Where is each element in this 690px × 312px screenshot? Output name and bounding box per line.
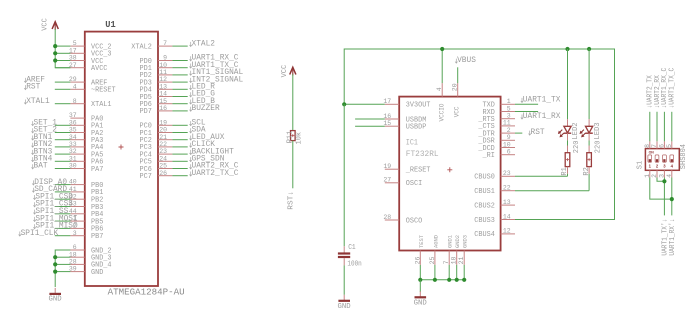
S1 pin 2 (bottom)	[651, 170, 658, 178]
U1 pin 22 PC3 / net CLICK	[140, 140, 216, 152]
svg-text:25: 25	[429, 256, 436, 264]
U1 pin 24 PC5 / net GPS_SDN	[140, 155, 225, 167]
U1 pin 36 PA1 / net SET_1	[32, 119, 104, 131]
svg-text:R11: R11	[287, 131, 295, 144]
svg-text:28: 28	[69, 259, 77, 266]
svg-text:32: 32	[69, 148, 77, 155]
svg-text:UART2_TX_C: UART2_TX_C	[192, 169, 239, 178]
svg-text:27: 27	[383, 177, 391, 184]
U1 pin 33 PA4 / net BTN2	[32, 140, 104, 152]
wire TXD / net UART1_TX	[515, 95, 561, 104]
svg-text:CBUS3: CBUS3	[474, 217, 495, 225]
svg-text:GND: GND	[338, 303, 352, 311]
U1 pin 19 PC0 / net SCL	[140, 119, 206, 131]
svg-text:19: 19	[159, 119, 167, 126]
U1 pin 32 PA5 / net BTN3	[32, 147, 104, 159]
svg-text:SHS804: SHS804	[680, 144, 688, 169]
IC1 pin 4 VCCIO (top)	[436, 49, 445, 122]
svg-text:XTAL2: XTAL2	[131, 43, 152, 51]
S1 pin 6 / net UART1_RX_C	[658, 68, 669, 149]
svg-text:↓UART1_TX_C: ↓UART1_TX_C	[669, 68, 677, 109]
svg-text:24: 24	[159, 155, 167, 162]
U1 pin 11 PD2 / net INT1_SIGNAL	[140, 68, 244, 80]
U1 pin 1 PB5 / net SPI1_MOSI	[33, 214, 103, 226]
wire C1 to ground	[343, 265, 345, 294]
LED LED3	[580, 49, 602, 140]
U1 pin 21 PC2 / net LED_AUX	[140, 133, 225, 145]
svg-text:CBUS4: CBUS4	[474, 231, 495, 239]
wire R2 to IC1	[515, 190, 589, 192]
svg-text:14: 14	[503, 213, 511, 220]
IC1 pin 21 GND3 (bottom)	[458, 235, 469, 280]
svg-text:GND3: GND3	[463, 235, 469, 248]
svg-text:33: 33	[69, 141, 77, 148]
svg-text:25: 25	[159, 163, 167, 170]
U1 pin 40 PB0 / net DISP_A0	[32, 178, 103, 190]
svg-text:13: 13	[503, 199, 511, 206]
U1 pin 14 PD5 / net LED_G	[140, 90, 216, 102]
svg-text:PD7: PD7	[140, 108, 152, 116]
svg-text:20: 20	[452, 83, 459, 91]
IC1 pin 17 3V3OUT	[344, 98, 431, 110]
svg-text:4: 4	[73, 83, 77, 90]
svg-text:TEST: TEST	[419, 234, 425, 248]
svg-text:VCC: VCC	[41, 18, 49, 31]
IC1 pin 19 _RESET	[383, 163, 430, 175]
svg-text:15: 15	[383, 120, 391, 127]
svg-text:CBUS0: CBUS0	[474, 174, 495, 182]
svg-text:6: 6	[73, 244, 77, 251]
IC1 pin 15 USBDP	[355, 120, 427, 132]
IC1 pin 12 CBUS4	[474, 228, 515, 240]
IC1 pin 3 _RTS	[478, 113, 515, 125]
ground symbol (U1)	[49, 288, 63, 304]
svg-text:28: 28	[383, 214, 391, 221]
svg-text:18: 18	[451, 256, 458, 264]
U1 pin 10 PD1 / net UART1_TX_C	[140, 61, 239, 73]
IC1 pin 11 _CTS	[478, 120, 515, 132]
wire S1 pins 2+3 / net UART1_TX'	[657, 178, 670, 256]
svg-text:GND: GND	[414, 300, 428, 308]
svg-text:26: 26	[414, 256, 421, 264]
svg-text:31: 31	[69, 155, 77, 162]
svg-text:LED2: LED2	[572, 122, 580, 139]
IC1 pin 25 AGND (bottom)	[429, 235, 440, 280]
U1 pin 30 PA7 / net BAT	[32, 162, 104, 174]
svg-text:8: 8	[644, 144, 651, 148]
svg-text:1: 1	[507, 98, 511, 105]
svg-text:AVCC: AVCC	[91, 65, 108, 73]
IC1 pin 2 _DTR	[478, 127, 515, 139]
U1 pin 15 PD6 / net LED_B	[140, 97, 216, 109]
S1 pin 4 (bottom)	[666, 170, 673, 178]
U1 pin 20 PC1 / net SDA	[140, 126, 206, 138]
svg-text:12: 12	[159, 76, 167, 83]
wire S1 pins 1+4 / net UART1_RX'	[650, 178, 677, 256]
svg-text:_RESET: _RESET	[405, 167, 431, 175]
svg-text:XTAL2: XTAL2	[192, 39, 216, 48]
svg-text:40: 40	[69, 179, 77, 186]
svg-text:CBUS1: CBUS1	[474, 188, 495, 196]
svg-text:23: 23	[159, 148, 167, 155]
U1 pin 31 PA6 / net BTN4	[32, 155, 104, 167]
svg-text:5: 5	[507, 105, 511, 112]
U1 pin 8 XTAL1 / net XTAL1	[24, 97, 112, 109]
svg-text:39: 39	[69, 266, 77, 273]
svg-text:5: 5	[73, 40, 77, 47]
IC1 pin 10 _DCD	[478, 141, 515, 153]
wire VBUS rail	[342, 47, 614, 220]
svg-text:BUZZER: BUZZER	[192, 104, 220, 113]
svg-text:2: 2	[507, 127, 511, 134]
LED LED2	[558, 49, 580, 140]
switch S1 SHS804 body	[636, 144, 687, 170]
svg-text:1: 1	[644, 174, 651, 178]
svg-text:16: 16	[383, 113, 391, 120]
svg-text:4: 4	[671, 164, 674, 169]
U1 pin 2 PB6 / net SPI1_MISO	[33, 222, 103, 234]
svg-text:4: 4	[666, 174, 673, 178]
U1 pin 38 VCC	[55, 55, 103, 66]
svg-text:100n: 100n	[347, 260, 361, 268]
svg-text:21: 21	[458, 256, 465, 264]
svg-text:23: 23	[503, 170, 511, 177]
svg-text:36: 36	[69, 119, 77, 126]
VCC supply symbol (U1)	[41, 18, 58, 31]
svg-text:2: 2	[651, 174, 658, 178]
svg-text:XTAL1: XTAL1	[26, 97, 50, 106]
svg-text:12: 12	[503, 228, 511, 235]
IC1 pin 26 TEST (bottom)	[414, 234, 425, 280]
svg-text:17: 17	[383, 98, 391, 105]
svg-text:20: 20	[159, 127, 167, 134]
svg-text:IC1: IC1	[406, 139, 418, 148]
svg-text:22: 22	[503, 185, 511, 192]
svg-text:21: 21	[159, 134, 167, 141]
IC1 pin 23 CBUS0	[474, 170, 515, 182]
ground symbol (C1)	[338, 295, 352, 311]
svg-text:BAT: BAT	[34, 162, 48, 171]
capacitor C1 100n	[338, 244, 362, 269]
U1 pin 35 PA2 / net SET_2	[32, 126, 104, 138]
U1 pin 43 PB3 / net SPI1_CSS	[33, 200, 103, 212]
wire _DTR / net RST	[515, 128, 545, 137]
svg-text:5: 5	[666, 144, 673, 148]
svg-text:OSCO: OSCO	[406, 217, 423, 225]
U1 pin 44 PB4 / net SPI1_SS	[33, 207, 103, 219]
svg-text:16: 16	[159, 105, 167, 112]
svg-text:3V3OUT: 3V3OUT	[406, 102, 431, 110]
op-amp U1 ATMEGA1284P-AU body	[85, 20, 185, 297]
S1 pin 5 / net UART1_TX_C	[666, 68, 677, 149]
IC1 pin 16 USBDM	[355, 113, 427, 125]
svg-text:C1: C1	[348, 244, 356, 252]
IC1 pin 9 _DSR	[478, 134, 515, 146]
wire IC1 ground bus	[418, 278, 466, 292]
op-amp IC1 FT232RL body	[399, 97, 500, 251]
U1 pin 7 XTAL2 / net XTAL2	[131, 39, 215, 51]
U1 pin 25 PC6 / net UART2_RX_C	[140, 162, 239, 174]
svg-text:11: 11	[159, 69, 167, 76]
svg-text:35: 35	[69, 127, 77, 134]
svg-text:3: 3	[658, 174, 665, 178]
IC1 pin 7 GND1 (bottom)	[443, 235, 454, 280]
svg-text:GND1: GND1	[448, 235, 454, 248]
svg-text:UART1_RX: UART1_RX	[523, 112, 561, 121]
svg-text:3: 3	[73, 230, 77, 237]
svg-text:3: 3	[507, 113, 511, 120]
svg-text:10k: 10k	[295, 132, 303, 145]
svg-text:GND2: GND2	[455, 235, 461, 248]
svg-text:PB7: PB7	[91, 233, 103, 241]
svg-text:30: 30	[69, 163, 77, 170]
resistor R11 10k	[287, 74, 304, 144]
svg-text:26: 26	[159, 170, 167, 177]
svg-text:CBUS2: CBUS2	[474, 202, 495, 210]
IC1 pin 14 CBUS3	[474, 213, 515, 225]
IC1 pin 27 OSCI	[383, 177, 422, 189]
svg-text:6: 6	[507, 149, 511, 156]
svg-text:4: 4	[436, 87, 443, 91]
U1 pin 27 AVCC	[55, 62, 108, 73]
svg-text:RST↓: RST↓	[288, 191, 296, 210]
U1 pin 4 ~RESET / net RST	[24, 83, 116, 95]
svg-text:34: 34	[69, 134, 77, 141]
IC1 pin 5 RXD	[483, 105, 516, 117]
wire GND rail from U1 ground pins	[53, 250, 70, 287]
svg-text:9: 9	[163, 55, 167, 62]
VCC supply symbol (R11)	[281, 65, 296, 78]
U1 pin 9 PD0 / net UART1_RX_C	[140, 54, 239, 66]
svg-text:220: 220	[595, 141, 603, 154]
wire 3V3OUT to C1	[343, 104, 345, 246]
svg-text:10: 10	[503, 141, 511, 148]
svg-text:VCC: VCC	[454, 106, 461, 117]
S1 pin 7 / net UART2_RX	[651, 75, 662, 149]
IC1 pin 28 OSCO	[383, 214, 422, 226]
svg-text:2: 2	[656, 164, 659, 169]
svg-text:UART1_TX: UART1_TX	[523, 95, 561, 104]
svg-text:S1: S1	[636, 161, 644, 169]
U1 pin 5 VCC_2	[55, 40, 112, 51]
svg-text:_RI: _RI	[482, 152, 495, 160]
wire VCC rail to U1 power pins	[53, 29, 70, 68]
svg-text:VCC: VCC	[281, 65, 289, 78]
IC1 pin 22 CBUS1	[474, 185, 515, 197]
U1 pin 3 PB7 / net SPI1_CLK	[19, 229, 104, 241]
svg-text:UART1_RX'↓: UART1_RX'↓	[669, 219, 677, 256]
svg-text:ON: ON	[649, 151, 655, 155]
svg-text:ATMEGA1284P-AU: ATMEGA1284P-AU	[108, 287, 185, 297]
svg-text:7: 7	[163, 40, 167, 47]
resistor R1 220	[561, 133, 581, 176]
svg-text:OSCI: OSCI	[406, 180, 422, 188]
IC1 pin 6 _RI	[482, 149, 515, 161]
svg-text:14: 14	[159, 91, 167, 98]
U1 pin 42 PB2 / net SPI1_CSD	[33, 192, 103, 204]
IC1 pin 20 VCC (top) / net VBUS	[452, 56, 476, 117]
svg-text:13: 13	[159, 83, 167, 90]
svg-text:FT232RL: FT232RL	[406, 150, 439, 159]
svg-text:17: 17	[69, 47, 77, 54]
wire R11 to net RST'	[288, 141, 296, 210]
U1 pin 17 VCC_3	[55, 47, 112, 58]
U1 pin 18 GND_3	[55, 251, 112, 262]
svg-text:22: 22	[159, 141, 167, 148]
svg-text:10: 10	[159, 62, 167, 69]
svg-text:29: 29	[69, 76, 77, 83]
svg-text:38: 38	[69, 55, 77, 62]
S1 pin 1 (bottom)	[644, 170, 651, 178]
U1 pin 6 GND_2	[55, 244, 112, 255]
svg-text:VCCIO: VCCIO	[439, 103, 446, 121]
U1 pin 12 PD3 / net INT2_SIGNAL	[140, 75, 244, 87]
svg-text:RST: RST	[26, 83, 40, 92]
svg-text:~RESET: ~RESET	[91, 87, 116, 95]
IC1 pin 1 TXD	[483, 98, 516, 110]
svg-text:SPI1_CLK: SPI1_CLK	[21, 229, 59, 238]
svg-text:18: 18	[69, 251, 77, 258]
svg-text:19: 19	[383, 163, 391, 170]
svg-text:8: 8	[73, 98, 77, 105]
U1 pin 41 PB1 / net SD_CARD	[32, 185, 103, 197]
U1 pin 34 PA3 / net BTN1	[32, 133, 104, 145]
S1 pin 3 (bottom)	[658, 170, 665, 178]
svg-text:PA7: PA7	[91, 166, 103, 174]
svg-text:AGND: AGND	[433, 235, 439, 248]
svg-text:7: 7	[651, 144, 658, 148]
wire RXD / net UART1_RX	[515, 112, 561, 121]
IC1 pin 13 CBUS2	[474, 199, 515, 211]
U1 pin 39 GND	[55, 266, 103, 277]
svg-text:GND: GND	[91, 269, 104, 277]
resistor R2 220	[583, 133, 603, 191]
svg-text:RST: RST	[531, 128, 545, 137]
U1 pin 29 AREF / net AREF	[24, 75, 108, 87]
svg-text:VBUS: VBUS	[457, 56, 476, 65]
svg-text:LED3: LED3	[594, 122, 602, 139]
svg-text:9: 9	[507, 134, 511, 141]
svg-text:7: 7	[443, 260, 450, 264]
svg-text:PC7: PC7	[140, 173, 152, 181]
U1 pin 28 GND_4	[55, 259, 112, 270]
svg-text:1: 1	[649, 164, 652, 169]
ground symbol (IC1)	[414, 291, 428, 307]
U1 pin 26 PC7 / net UART2_TX_C	[140, 169, 239, 181]
svg-text:GND: GND	[49, 296, 63, 304]
svg-text:USBDP: USBDP	[406, 124, 427, 132]
IC1 pin 18 GND2 (bottom)	[451, 235, 462, 280]
svg-text:11: 11	[503, 120, 511, 127]
svg-text:37: 37	[69, 112, 77, 119]
svg-text:XTAL1: XTAL1	[91, 101, 112, 109]
U1 pin 37 PA0	[69, 112, 104, 123]
U1 pin 13 PD4 / net LED_R	[140, 83, 216, 95]
S1 pin 8 / net UART2_TX	[644, 75, 655, 149]
svg-text:3: 3	[663, 164, 666, 169]
svg-text:15: 15	[159, 98, 167, 105]
svg-text:220: 220	[573, 141, 581, 154]
U1 pin 23 PC4 / net BACKLIGHT	[140, 147, 234, 159]
svg-text:U1: U1	[105, 20, 115, 30]
wire R1 to IC1	[515, 175, 568, 177]
U1 pin 16 PD7 / net BUZZER	[140, 104, 220, 116]
svg-text:6: 6	[658, 144, 665, 148]
